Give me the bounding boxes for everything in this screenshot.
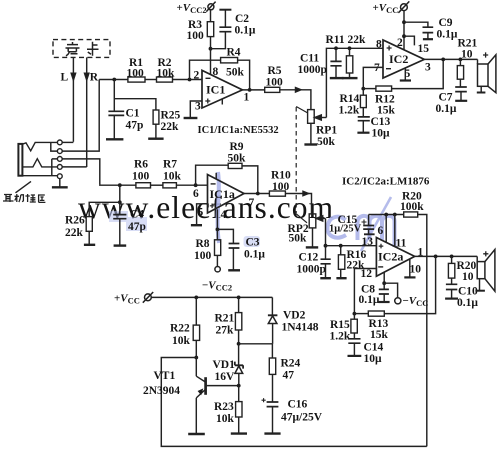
svg-text:0.1μ: 0.1μ — [436, 103, 457, 115]
svg-text:3: 3 — [425, 62, 431, 74]
node output/R21 — [459, 58, 463, 62]
headphone jack 耳机插座 body — [18, 144, 22, 176]
svg-text:100: 100 — [127, 68, 145, 80]
wire IC2a pin10 to ground — [409, 259, 411, 277]
svg-text:IC2a: IC2a — [378, 250, 403, 264]
node R3/C2 junction — [209, 47, 213, 51]
svg-text:R21: R21 — [215, 313, 235, 325]
svg-text:R7: R7 — [163, 159, 177, 171]
svg-text:100: 100 — [187, 30, 205, 42]
svg-text:C16: C16 — [288, 399, 308, 411]
svg-text:6: 6 — [378, 225, 384, 237]
node pin6 tap — [384, 213, 388, 217]
watermark blue slash — [361, 197, 391, 251]
ground under R11 — [342, 77, 358, 79]
svg-text:C1: C1 — [126, 108, 140, 120]
svg-text:−VCC: −VCC — [403, 295, 429, 308]
wire IC2 pin7 feedback — [363, 67, 383, 88]
ground under C4 — [114, 244, 127, 246]
capacitor C13 — [358, 116, 391, 140]
node pin11 tap — [393, 213, 397, 217]
svg-text:R15: R15 — [330, 319, 350, 331]
svg-text:47: 47 — [283, 370, 295, 382]
jack tip spring contact V — [22, 142, 57, 150]
wire IC2a pin12 — [354, 269, 376, 314]
node output feedback — [434, 255, 438, 259]
svg-text:8: 8 — [213, 66, 219, 78]
svg-text:R4: R4 — [227, 47, 241, 59]
svg-text:10k: 10k — [157, 68, 176, 80]
resistor R14 — [339, 89, 367, 117]
svg-text:3: 3 — [195, 101, 201, 113]
wire IC1 pin3 to ground — [190, 101, 202, 117]
jack terminal 1 — [57, 140, 62, 145]
node pin6/R9 — [194, 183, 198, 187]
watermark gray www.elecfans.com — [78, 190, 334, 225]
node R4 feedback junction — [188, 78, 192, 82]
svg-text:R26: R26 — [65, 215, 85, 227]
svg-text:10: 10 — [461, 49, 473, 61]
zener VD1 16V — [213, 344, 244, 386]
jack terminal 2 — [57, 149, 62, 154]
svg-text:C11: C11 — [300, 53, 319, 65]
wire R10 to RP2 with arrow — [285, 191, 311, 214]
wire IC2a pin11 stub — [394, 215, 396, 247]
svg-text:16V: 16V — [215, 371, 236, 383]
watermark blue strokes — [218, 172, 395, 247]
svg-text:100: 100 — [266, 77, 284, 89]
wire top channel input to R1 — [99, 79, 128, 81]
resistor R2 — [157, 57, 176, 82]
wire terminal3 to bottom channel input — [62, 159, 100, 185]
svg-text:1: 1 — [244, 92, 250, 104]
svg-text:R: R — [90, 72, 99, 84]
capacitor C11 — [298, 48, 342, 77]
svg-text:C2: C2 — [235, 13, 249, 25]
wire terminal2 to top channel input — [62, 80, 99, 152]
resistor R15 — [330, 314, 358, 343]
svg-text:1μ/25V: 1μ/25V — [329, 224, 362, 235]
svg-text:IC1/IC1a:NE5532: IC1/IC1a:NE5532 — [198, 125, 279, 136]
resistor R24 — [269, 344, 300, 402]
svg-text:R22: R22 — [170, 323, 190, 335]
resistor R22 — [170, 297, 200, 357]
ground under C9 — [423, 38, 433, 40]
svg-text:100: 100 — [132, 171, 150, 183]
resistor R13 — [354, 311, 388, 341]
svg-text:+VCC: +VCC — [373, 2, 399, 15]
wire IC2 pin5 to ground — [404, 69, 406, 80]
resistor R9 feedback — [196, 141, 258, 194]
ground under R16 — [336, 277, 346, 279]
wire IC2a pin6 stub — [385, 215, 387, 243]
svg-text:47μ/25V: 47μ/25V — [281, 412, 323, 424]
watermark blue highlight boxes at C4 — [109, 211, 260, 247]
svg-text:50k: 50k — [226, 67, 245, 79]
capacitor C15 — [329, 214, 375, 235]
svg-text:22k: 22k — [161, 121, 180, 133]
node R21b tap — [237, 296, 241, 300]
wire IC1a output — [244, 193, 269, 195]
svg-text:0.1μ: 0.1μ — [457, 297, 478, 309]
svg-text:IC1a: IC1a — [210, 187, 235, 201]
node VD1/base/R23 — [237, 384, 241, 388]
svg-text:4: 4 — [221, 209, 227, 221]
ground under R23 — [231, 432, 247, 434]
svg-text:R8: R8 — [196, 238, 210, 250]
resistor R16 — [338, 246, 366, 278]
ground under VT1 emitter — [188, 433, 205, 435]
svg-text:R6: R6 — [134, 159, 148, 171]
node pin7/R12/R14 — [361, 87, 365, 91]
node R22 tap — [194, 296, 198, 300]
svg-text:−VCC2: −VCC2 — [202, 280, 232, 293]
svg-text:R9: R9 — [230, 141, 244, 153]
wire IC1a pin4 supply — [216, 209, 218, 229]
power terminal -Vcc2 — [202, 267, 232, 293]
svg-text:R25: R25 — [161, 110, 181, 122]
jack terminal 5 — [57, 174, 62, 179]
jack sleeve bottom wire — [22, 175, 57, 177]
capacitor C4 — [113, 202, 144, 245]
ground under IC1a pin5 — [191, 224, 202, 226]
resistor R21 — [457, 38, 477, 87]
power terminal +Vcc2 — [177, 2, 216, 15]
ground under C11 — [330, 77, 344, 79]
svg-text:27k: 27k — [216, 325, 235, 337]
svg-text:L: L — [61, 72, 69, 84]
ground under C10 — [445, 298, 458, 300]
ground under RP1 — [304, 143, 317, 145]
svg-text:IC1: IC1 — [206, 83, 225, 97]
wire R7 to IC1a pin6 — [176, 184, 207, 186]
svg-text:100k: 100k — [400, 201, 424, 213]
svg-text:C3: C3 — [246, 237, 260, 249]
svg-text:C10: C10 — [458, 286, 478, 298]
resistor R25 — [153, 110, 180, 139]
potentiometer RP2 — [288, 214, 326, 247]
op-amp IC1a — [193, 173, 255, 221]
text 卡 (card) — [87, 42, 99, 56]
wire IC2a Vee pin — [383, 272, 385, 283]
svg-text:15k: 15k — [377, 105, 396, 117]
svg-text:5: 5 — [198, 207, 204, 219]
label 耳机插座 (headphone jack) — [3, 194, 45, 202]
wire terminal3 left jog to sleeve line — [52, 159, 58, 176]
svg-text:10μ: 10μ — [364, 353, 383, 365]
svg-text:47p: 47p — [126, 120, 144, 132]
resistor R4 — [190, 47, 250, 90]
svg-text:0.1μ: 0.1μ — [244, 249, 265, 261]
power terminal +Vcc — [373, 1, 410, 15]
resistor R10 — [269, 170, 291, 197]
wire R5 to RP1 with arrow — [280, 88, 311, 110]
svg-text:C4: C4 — [130, 209, 144, 221]
ground under C14 — [348, 355, 362, 357]
resistor R20 100k — [400, 191, 424, 218]
svg-text:6: 6 — [193, 188, 199, 200]
svg-text:7: 7 — [249, 197, 255, 209]
node pin15 tap — [402, 34, 406, 38]
gang dashed link RP1-RP2 — [296, 107, 308, 223]
pointer line to jack — [16, 181, 32, 192]
svg-text:+VCC2: +VCC2 — [177, 2, 207, 15]
op-amp IC1 — [194, 66, 250, 113]
ground under C8 — [379, 301, 390, 303]
svg-text:10: 10 — [462, 271, 474, 283]
wire RP2 wiper to IC2a pin13 node — [325, 218, 327, 245]
svg-text:IC2: IC2 — [389, 52, 408, 66]
sound card dashed box 声卡 — [53, 40, 110, 58]
resistor R26 — [65, 202, 120, 244]
svg-text:0.1μ: 0.1μ — [437, 29, 458, 41]
capacitor C12 — [297, 246, 331, 278]
svg-text:100: 100 — [272, 181, 290, 193]
svg-text:R10: R10 — [271, 170, 291, 182]
svg-text:22k: 22k — [65, 227, 84, 239]
wire IC1 pin8 supply — [210, 49, 212, 75]
wire R1-R2 — [145, 79, 157, 81]
node pin4/R8/C3 — [216, 228, 220, 232]
svg-text:C9: C9 — [439, 17, 453, 29]
svg-text:12: 12 — [361, 268, 373, 280]
wire mute net C15 to R20 — [369, 214, 404, 216]
svg-text:10μ: 10μ — [372, 128, 391, 140]
resistor R11 — [346, 48, 352, 77]
node C4 tap — [118, 183, 122, 187]
node output/R12 feedback — [441, 58, 445, 62]
node IC1 output — [248, 88, 252, 92]
node pin12/R13/R15 — [353, 312, 357, 316]
ground under C13 — [357, 132, 369, 134]
svg-text:1.2k: 1.2k — [330, 331, 351, 343]
svg-text:C7: C7 — [439, 92, 453, 104]
svg-text:1000p: 1000p — [298, 64, 327, 76]
node wiper/C12 — [324, 244, 328, 248]
wire IC1 output — [242, 89, 264, 91]
wire C1 node to R25 — [114, 99, 156, 110]
ground under C1 — [106, 138, 123, 140]
svg-text:1.2k: 1.2k — [339, 105, 360, 117]
svg-text:1N4148: 1N4148 — [282, 322, 319, 334]
op-amp IC2a — [361, 225, 424, 280]
resistor R23 — [214, 386, 242, 433]
wire bottom channel input to R6 — [100, 184, 136, 186]
wire R21b to R24 link — [239, 343, 273, 345]
svg-text:VT1: VT1 — [154, 370, 176, 382]
op-amp IC2 — [374, 37, 431, 80]
svg-text:15k: 15k — [370, 329, 389, 341]
ground under IC2a pin10 — [404, 276, 415, 278]
svg-text:10: 10 — [410, 264, 422, 276]
ground under RP2 — [306, 246, 318, 248]
svg-text:R5: R5 — [268, 65, 282, 77]
ground under C16 — [264, 432, 280, 434]
ground under IC2 pin5 — [400, 79, 411, 81]
svg-text:8: 8 — [376, 39, 382, 51]
ground under C7 — [455, 100, 467, 102]
jack ring spring contact — [22, 159, 57, 167]
transistor VT1 — [143, 358, 239, 434]
resistor R1 — [127, 57, 146, 82]
wire R6-R7 — [151, 184, 163, 186]
svg-text:1000p: 1000p — [297, 264, 326, 276]
wire IC2 pin15 stub — [404, 36, 414, 45]
svg-text:R24: R24 — [281, 358, 301, 370]
resistor R7 — [163, 159, 182, 188]
svg-text:R14: R14 — [340, 93, 360, 105]
wire terminal4 to R line — [62, 166, 86, 168]
wire IC1a pin5 to ground — [197, 204, 208, 225]
wire L from sound card to jack — [71, 57, 75, 141]
svg-text:RP1: RP1 — [316, 125, 337, 137]
resistor R3 — [187, 10, 214, 49]
jack terminal 4 — [57, 165, 62, 170]
ground under R26 — [84, 244, 95, 246]
wire terminal1 to L line — [62, 141, 73, 143]
wire +Vcc to IC2 pin2 — [403, 11, 405, 50]
svg-text:VD1: VD1 — [213, 359, 236, 371]
node C8/-Vcc tap — [382, 281, 386, 285]
capacitor C10 — [446, 284, 478, 309]
resistor R5 — [265, 65, 283, 92]
power terminal -Vcc — [384, 283, 428, 308]
resistor R6 — [132, 159, 151, 188]
resistor R20 10 — [448, 256, 476, 284]
node C4/R26 — [118, 200, 122, 204]
capacitor C9 — [404, 17, 458, 41]
svg-text:IC2/IC2a:LM1876: IC2/IC2a:LM1876 — [342, 176, 430, 188]
wire RP1 wiper to IC2 pin8 — [326, 48, 383, 117]
wire R20 to control rail — [418, 215, 427, 447]
capacitor C16 electrolytic — [262, 398, 323, 433]
node R21b/VD1/R24 — [237, 342, 241, 346]
wire jog terminal1-terminal2 — [51, 142, 58, 151]
svg-text:50k: 50k — [228, 153, 247, 165]
wire IC2a output — [415, 255, 478, 257]
svg-text:0.1μ: 0.1μ — [359, 294, 380, 306]
svg-text:C13: C13 — [371, 116, 391, 128]
svg-text:10k: 10k — [163, 171, 182, 183]
svg-text:VD2: VD2 — [283, 310, 306, 322]
speaker top — [477, 52, 496, 92]
svg-text:50k: 50k — [317, 136, 336, 148]
svg-text:R23: R23 — [214, 401, 234, 413]
wire control box left/bottom — [161, 358, 427, 447]
svg-text:+VCC: +VCC — [114, 293, 140, 306]
wire +Vcc control bus — [151, 296, 272, 298]
svg-text:100: 100 — [194, 250, 212, 262]
node C11 tap — [334, 46, 338, 50]
capacitor C8 — [359, 283, 389, 306]
speaker bottom — [475, 250, 495, 292]
wire R from sound card to jack — [85, 57, 89, 167]
svg-text:13: 13 — [362, 236, 374, 248]
node C9 tap — [402, 20, 406, 24]
resistor R8 — [194, 229, 221, 266]
capacitor C1 — [108, 80, 143, 139]
wire feedback drop — [384, 256, 435, 313]
svg-text:10k: 10k — [172, 335, 191, 347]
node collector/R22 — [194, 356, 198, 360]
svg-text:2: 2 — [397, 37, 403, 49]
ground under R25 — [148, 137, 163, 139]
svg-text:C14: C14 — [364, 342, 384, 354]
ground under C3 — [228, 269, 240, 271]
capacitor C7 — [436, 87, 467, 115]
svg-text:R11 22k: R11 22k — [326, 34, 367, 46]
diode VD2 1N4148 — [268, 297, 319, 343]
svg-text:10k: 10k — [216, 413, 235, 425]
resistor R12 — [363, 59, 443, 116]
svg-text:2: 2 — [194, 70, 200, 82]
svg-text:47p: 47p — [128, 221, 146, 233]
node C1 tap — [112, 78, 116, 82]
jack ground — [52, 179, 68, 188]
svg-text:50k: 50k — [289, 233, 308, 245]
node output/R20b — [450, 255, 454, 259]
svg-text:2N3904: 2N3904 — [143, 385, 180, 397]
power terminal +Vcc bottom — [114, 292, 153, 306]
svg-text:15: 15 — [418, 43, 430, 55]
node R11 tap — [348, 46, 352, 50]
wire C4 node drop — [119, 185, 121, 202]
potentiometer RP1 — [308, 110, 338, 148]
svg-text:11: 11 — [396, 238, 407, 250]
node output/R9 feedback — [256, 192, 260, 196]
ground under C12 — [320, 277, 331, 279]
node R16 tap — [339, 244, 343, 248]
resistor R21 27k — [215, 297, 242, 343]
svg-text:0.1μ: 0.1μ — [235, 25, 256, 37]
svg-text:C12: C12 — [299, 252, 319, 264]
jack terminal 3 — [57, 157, 62, 162]
wire IC2 output — [424, 58, 477, 60]
capacitor C2 — [211, 10, 256, 49]
wire pin13 node — [326, 245, 377, 247]
capacitor C14 — [348, 339, 383, 365]
text 声 (sound) — [66, 42, 80, 56]
ground under IC1 pin3 — [184, 117, 198, 119]
capacitor C3 — [217, 229, 265, 269]
wire R2 to IC1 pin2 — [173, 79, 203, 81]
